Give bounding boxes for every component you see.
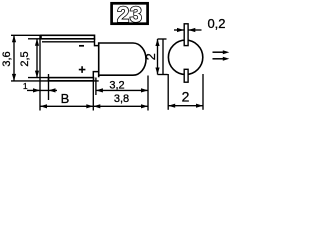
extension line bottom (3,6) <box>11 80 99 82</box>
dimension 3,8 (overall body length) <box>93 93 148 108</box>
dimension 0,2 (lead thickness) <box>174 16 226 32</box>
dimension 3,2 (body length) <box>96 79 148 92</box>
bottom lead tab <box>184 69 188 82</box>
extension line top (3,6) <box>11 34 41 36</box>
minus mark <box>79 45 84 47</box>
direction arrow 1 <box>213 50 230 54</box>
svg-text:2,5: 2,5 <box>19 51 31 66</box>
top view circle <box>168 40 202 74</box>
lead 1 paddle (top flat lead, cathode) <box>41 35 95 39</box>
extension line x93 <box>92 81 94 111</box>
extension line (2,5 top) <box>28 38 41 40</box>
lead 1 step into body <box>95 39 99 46</box>
dimension 2,5 <box>19 39 39 78</box>
top lead tab <box>184 24 188 46</box>
lead 2 paddle (bottom flat lead, anode) <box>49 78 94 81</box>
svg-text:B: B <box>61 91 70 106</box>
dimension 2 (top view diameter, below circle) <box>168 74 203 110</box>
extension line (2,5 bottom) <box>28 77 49 79</box>
svg-text:2: 2 <box>144 53 158 60</box>
svg-text:0,2: 0,2 <box>207 16 225 31</box>
lead 2 step into body <box>93 72 98 78</box>
extension line x48.5 <box>48 74 50 100</box>
svg-text:3,8: 3,8 <box>114 93 129 105</box>
svg-text:3,2: 3,2 <box>109 79 124 91</box>
dimension B (lead length) <box>40 91 93 109</box>
svg-text:23: 23 <box>117 2 142 27</box>
svg-text:1: 1 <box>23 81 28 91</box>
extension line x148 (dome apex) <box>147 76 149 111</box>
dimension 3,6 <box>1 35 16 81</box>
LED body with dome <box>99 43 146 77</box>
direction arrow 2 <box>213 57 230 61</box>
dimension 1 (lead stagger) <box>23 81 57 93</box>
dimension 2 (body diameter, left of top view) <box>144 39 168 75</box>
lead 1 inner edge line <box>42 41 95 43</box>
extension line x95.7 <box>95 78 97 96</box>
svg-text:3,6: 3,6 <box>1 51 13 66</box>
figure number box 23 <box>112 2 148 27</box>
plus mark <box>79 66 86 73</box>
extension line x40 <box>39 36 41 111</box>
svg-text:2: 2 <box>182 88 190 104</box>
